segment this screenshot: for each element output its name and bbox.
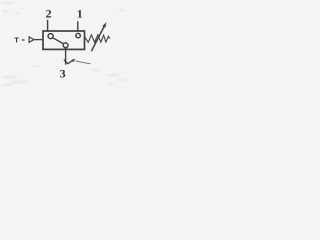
- valve body: [43, 31, 85, 49]
- scan noise patches: [1, 1, 127, 86]
- svg-text:T: T: [14, 36, 19, 45]
- pilot line to body: [34, 39, 43, 41]
- port 2 lead: [47, 20, 49, 32]
- svg-text:2: 2: [46, 7, 52, 21]
- common contact circle: [63, 43, 68, 48]
- switch blade: [53, 38, 64, 44]
- contact circle port 1: [76, 33, 80, 37]
- electrical signal zigzag arrow: [64, 60, 73, 64]
- adjustment arrow head: [102, 22, 106, 28]
- adjustment arrow shaft: [91, 27, 103, 51]
- spring: [85, 35, 110, 42]
- pilot triangle: [29, 37, 34, 42]
- port 3 lead: [65, 48, 67, 65]
- leader hairline: [75, 61, 91, 64]
- svg-text:3: 3: [60, 67, 66, 81]
- contact circle port 2: [48, 34, 53, 39]
- port 1 lead: [77, 21, 79, 31]
- dash after T: [22, 39, 25, 41]
- svg-text:1: 1: [77, 7, 83, 21]
